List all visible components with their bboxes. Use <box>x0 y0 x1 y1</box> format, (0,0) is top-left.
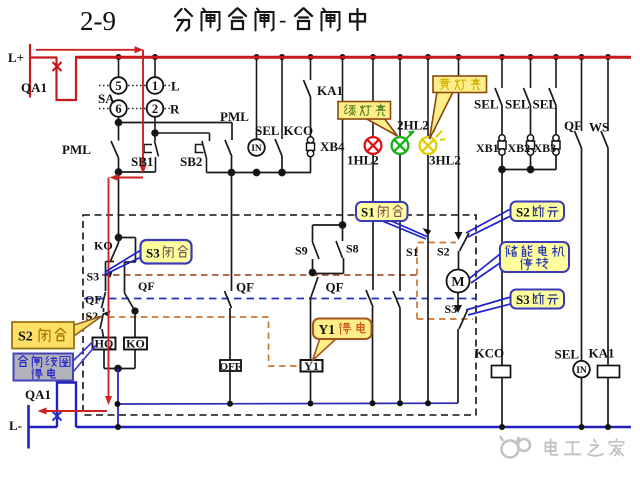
wire Y1 column with QF contact <box>311 277 319 404</box>
svg-text:R: R <box>170 102 180 117</box>
svg-text:IN: IN <box>251 144 262 154</box>
wire 2HL2 column with QF contact <box>393 154 400 403</box>
svg-text:KO: KO <box>126 337 145 351</box>
orange dashed path S3 to S1S2 box <box>102 274 417 276</box>
relay contact KA1 + connector XB4 column <box>304 80 311 173</box>
contact QF left column <box>102 292 106 312</box>
indicator IN circle bottom (SEL) <box>573 361 590 378</box>
wire group bottom rail <box>207 170 312 176</box>
svg-text:M: M <box>451 275 464 290</box>
wire S8 S9 parallel group <box>310 222 346 276</box>
svg-text:S3: S3 <box>87 270 100 284</box>
svg-text:XB1: XB1 <box>476 141 499 155</box>
svg-text:6: 6 <box>115 102 121 116</box>
svg-text:3HL2: 3HL2 <box>429 153 461 168</box>
breaker QA1 top contact <box>57 58 77 101</box>
svg-text:QF: QF <box>236 280 254 295</box>
wire KCO coil column <box>501 170 503 428</box>
svg-text:-: - <box>279 7 286 32</box>
contact KO changeover <box>111 235 136 294</box>
switch PML right <box>225 123 232 173</box>
motor M <box>447 270 470 293</box>
svg-text:2-9: 2-9 <box>80 6 116 36</box>
wire 3HL2 S1 column closed <box>423 154 432 403</box>
connector XB1 <box>498 135 506 155</box>
svg-text:OFF: OFF <box>220 361 242 373</box>
L+ bus red <box>75 56 631 59</box>
svg-text:S1: S1 <box>406 245 419 259</box>
svg-text:5: 5 <box>115 79 121 93</box>
junction dots on L- bus <box>115 424 611 430</box>
svg-text:IN: IN <box>576 366 587 376</box>
svg-text:KO: KO <box>94 239 113 253</box>
switch SEL triple + connectors XB1 XB2 XB3 <box>495 88 556 173</box>
switch QF right + IN column <box>575 131 582 427</box>
svg-text:S2: S2 <box>516 205 530 220</box>
callout S2闭合 <box>12 316 102 349</box>
contact QF middle (KO coil branch) <box>125 293 138 338</box>
node dots on L+ bus <box>116 54 612 60</box>
blue dashed QF status line <box>84 298 475 300</box>
svg-text:S8: S8 <box>346 242 359 256</box>
switch WS + KA1 coil column <box>601 131 608 427</box>
callout S3闭合 <box>104 240 192 275</box>
callout S3断开 <box>466 290 564 316</box>
callout Y1得电 <box>313 319 372 361</box>
open mark X blue <box>53 412 62 421</box>
svg-text:SEL: SEL <box>255 123 280 138</box>
watermark 电工之家 <box>500 436 624 458</box>
callout 绿灯亮 green lamp lit <box>338 102 398 137</box>
lamp 3HL2 yellow lit <box>420 127 445 154</box>
L- bus blue main <box>76 426 631 429</box>
svg-text:XB3: XB3 <box>534 141 557 155</box>
coil HQ <box>93 337 116 351</box>
coil OFF <box>220 360 242 373</box>
contact S2 left column <box>100 311 111 338</box>
open mark X on QA1 <box>53 62 62 71</box>
callout 黄灯亮 yellow lamp lit <box>430 76 487 139</box>
svg-text:KA1: KA1 <box>589 346 615 361</box>
svg-text:L-: L- <box>9 418 22 433</box>
svg-text:L: L <box>171 79 180 94</box>
connector XB3 <box>552 135 560 155</box>
contact S3 left <box>105 262 115 292</box>
svg-text:2: 2 <box>152 102 158 116</box>
connector XB4 <box>307 137 315 157</box>
svg-text:KCO: KCO <box>475 346 505 361</box>
svg-text:XB4: XB4 <box>320 139 345 154</box>
red flow arrow top <box>36 46 147 414</box>
callout S1闭合 <box>356 202 428 239</box>
svg-text:1: 1 <box>152 79 158 93</box>
svg-text:HQ: HQ <box>95 337 114 351</box>
svg-text:L+: L+ <box>8 50 24 65</box>
lamp 2HL2 green lit <box>392 131 415 154</box>
L- bus blue left <box>28 426 58 429</box>
svg-text:S3: S3 <box>445 302 458 316</box>
wire HQ-KO node to L- bus <box>117 369 119 428</box>
svg-text:SEL: SEL <box>533 97 558 112</box>
wire HQ KO join <box>104 349 135 372</box>
svg-text:SB1: SB1 <box>131 154 153 169</box>
orange dashed path S2 to Y1 <box>86 317 300 366</box>
title 2-9 分闸合闸-合闸中 <box>80 6 365 36</box>
wire OFF column <box>225 173 232 404</box>
svg-text:S3: S3 <box>146 246 160 261</box>
svg-text:S3: S3 <box>516 292 530 307</box>
connector XB2 <box>527 135 535 155</box>
svg-text:KCO: KCO <box>284 123 314 138</box>
svg-text:S2: S2 <box>437 245 450 259</box>
wire node PML/SB1 bottom <box>116 169 156 175</box>
svg-text:SEL: SEL <box>474 97 499 112</box>
wire neutral return thin blue <box>118 402 459 405</box>
dotted linkage lines SA <box>99 86 170 109</box>
svg-text:PML: PML <box>220 109 249 124</box>
svg-text:XB2: XB2 <box>508 141 531 155</box>
coil Y1 <box>301 359 323 373</box>
orange dashed box around S1 S2 <box>417 243 456 320</box>
big dashed enclosure box <box>83 215 476 415</box>
callout S2断开 <box>466 202 564 238</box>
svg-text:S2: S2 <box>18 330 33 345</box>
coil KA1 <box>598 366 620 378</box>
breaker QA1 bottom contact <box>57 383 76 428</box>
switch KCO top <box>275 139 282 173</box>
wire 1HL2 column with QF contact <box>366 154 373 403</box>
indicator IN circle top (SEL) <box>248 139 265 156</box>
callout 合闸线圈得电 <box>14 342 97 381</box>
junction dots on return wire <box>115 400 432 407</box>
svg-text:QA1: QA1 <box>21 80 47 95</box>
svg-text:SEL: SEL <box>555 347 580 362</box>
lamp 1HL2 red <box>365 137 382 154</box>
node L+ terminal <box>29 44 58 98</box>
svg-text:QA1: QA1 <box>25 387 51 402</box>
switch PML left column <box>111 117 119 172</box>
callout 储能电机停转 <box>470 242 569 283</box>
pushbutton SB2 <box>196 133 210 173</box>
coil KCO <box>492 366 511 378</box>
coil KO <box>124 337 147 351</box>
svg-text:SA: SA <box>98 91 115 106</box>
svg-text:SEL: SEL <box>505 97 530 112</box>
svg-text:SB2: SB2 <box>180 154 202 169</box>
svg-text:Y1: Y1 <box>319 322 336 337</box>
svg-text:S9: S9 <box>295 244 308 258</box>
wire SA row junction <box>116 120 233 126</box>
wire S2 M S3 column <box>454 232 469 403</box>
svg-text:QF: QF <box>85 293 102 307</box>
svg-text:1HL2: 1HL2 <box>347 153 379 168</box>
svg-text:KA1: KA1 <box>317 83 343 98</box>
wire column down to KO <box>118 172 120 238</box>
selector SA contact circles 5 1 6 2 <box>110 77 163 117</box>
node L- terminal <box>27 405 30 449</box>
wire bus taps top <box>119 57 609 237</box>
svg-text:QF: QF <box>326 280 344 295</box>
svg-text:QF: QF <box>138 279 155 293</box>
svg-text:S1: S1 <box>361 205 375 220</box>
svg-text:WS: WS <box>589 120 609 135</box>
svg-text:PML: PML <box>62 142 91 157</box>
svg-text:QF: QF <box>564 118 582 133</box>
svg-text:2HL2: 2HL2 <box>397 118 429 133</box>
pushbutton SB1 <box>144 117 210 172</box>
